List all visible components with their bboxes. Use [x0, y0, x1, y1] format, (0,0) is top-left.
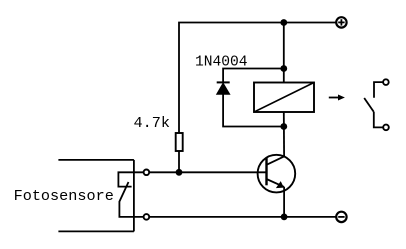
resistor R1 4.7k [176, 133, 183, 151]
node junction diode bottom / collector [280, 123, 287, 130]
node junction resistor base [176, 169, 183, 176]
svg-text:4.7k: 4.7k [134, 114, 170, 132]
sensor box outline [58, 160, 133, 232]
sensor switch contact [118, 172, 143, 217]
arrow relay action [329, 95, 345, 101]
wire emitter [283, 187, 285, 217]
node junction emitter bottom rail [281, 214, 288, 221]
wire relay bottom to collector [283, 112, 285, 157]
relay contact terminal bottom [383, 125, 389, 131]
plus supply terminal [336, 17, 346, 27]
transistor Q1 [258, 155, 296, 193]
node junction top rail / relay branch [280, 19, 287, 26]
node junction diode top [280, 65, 287, 72]
relay contact terminal top [383, 79, 389, 85]
relay contact switch [364, 82, 383, 127]
wire diode top link [223, 69, 284, 83]
wire relay top branch [283, 23, 285, 83]
relay K1 coil [254, 83, 314, 113]
sensor output terminal bottom [144, 214, 150, 220]
wire diode bottom link [223, 94, 284, 126]
sensor output terminal top [144, 170, 150, 176]
wire resistor to base node [178, 151, 180, 172]
wire base [150, 171, 267, 173]
svg-text:Fotosensore: Fotosensore [14, 187, 114, 205]
wire bottom rail [150, 216, 336, 218]
svg-text:1N4004: 1N4004 [195, 54, 248, 70]
diode D1 1N4004 [217, 82, 230, 94]
wire top rail from resistor branch to plus terminal [179, 23, 336, 134]
minus supply terminal [336, 212, 346, 222]
